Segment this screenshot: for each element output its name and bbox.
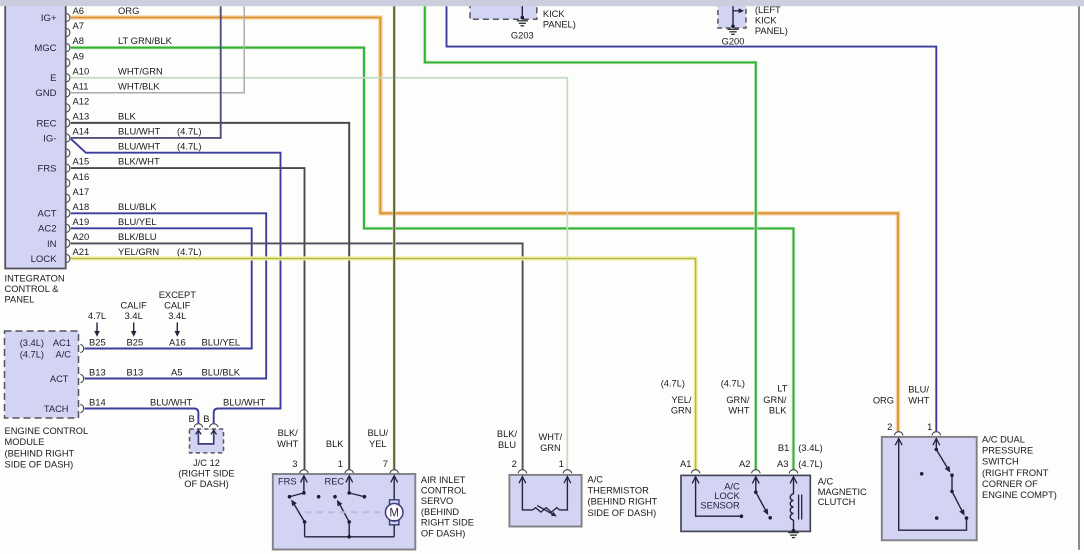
svg-text:WHT/BLK: WHT/BLK bbox=[118, 80, 160, 91]
svg-text:LT: LT bbox=[777, 384, 787, 394]
svg-text:CALIF: CALIF bbox=[164, 300, 191, 310]
svg-text:G203: G203 bbox=[511, 30, 534, 40]
A/C dual pressure switch box bbox=[882, 437, 977, 540]
svg-text:J/C 12: J/C 12 bbox=[193, 458, 220, 468]
lock sensor internal A2 switch blade bbox=[752, 477, 772, 520]
svg-text:BLU/WHT: BLU/WHT bbox=[118, 141, 160, 152]
svg-text:A9: A9 bbox=[73, 50, 84, 61]
svg-text:IG+: IG+ bbox=[41, 13, 57, 24]
svg-text:1: 1 bbox=[338, 458, 343, 469]
svg-text:BLU/WHT: BLU/WHT bbox=[118, 126, 160, 137]
ECM pin arcs B25/B13/B14 bbox=[80, 344, 83, 412]
label AIR INLET CONTROL SERVO (BEHIND RIGHT SIDE OF DASH) bbox=[421, 475, 474, 539]
svg-text:B: B bbox=[189, 413, 195, 424]
svg-text:LOCK: LOCK bbox=[31, 254, 58, 265]
svg-text:BLK: BLK bbox=[769, 405, 787, 415]
svg-text:REC: REC bbox=[36, 118, 56, 129]
magnetic clutch coil on A3 bbox=[790, 477, 802, 533]
svg-text:OF DASH): OF DASH) bbox=[184, 479, 228, 489]
servo internal: motor M bbox=[385, 476, 403, 537]
wire labels above lock sensor pins bbox=[661, 379, 788, 416]
svg-text:IG-: IG- bbox=[43, 133, 56, 144]
ground symbol G203 bbox=[517, 21, 528, 26]
svg-text:BLU/BLK: BLU/BLK bbox=[118, 201, 157, 212]
svg-text:1: 1 bbox=[927, 421, 932, 432]
svg-text:(4.7L): (4.7L) bbox=[721, 379, 745, 389]
svg-text:B13: B13 bbox=[89, 367, 106, 378]
svg-text:AC1: AC1 bbox=[53, 338, 71, 348]
svg-text:LT GRN/BLK: LT GRN/BLK bbox=[118, 35, 173, 46]
wire labels above thermistor pins bbox=[497, 429, 563, 453]
svg-text:A13: A13 bbox=[73, 111, 90, 122]
wire LT GRN/BLK: A8 to A/C lock sensor pin A3 bbox=[71, 48, 794, 470]
svg-text:WHT/: WHT/ bbox=[539, 432, 563, 442]
svg-text:A20: A20 bbox=[73, 231, 90, 242]
svg-text:A16: A16 bbox=[73, 171, 90, 182]
servo internal: FRS switch bbox=[288, 476, 308, 537]
svg-text:BLK/WHT: BLK/WHT bbox=[118, 156, 160, 167]
wire BLU/YEL: A19 to ECM pin B25/A16 row bbox=[71, 228, 252, 348]
thermistor pin arcs bbox=[518, 470, 572, 473]
svg-text:(LEFT: (LEFT bbox=[755, 5, 781, 15]
svg-text:PRESSURE: PRESSURE bbox=[982, 446, 1033, 456]
label INTEGRATON CONTROL & PANEL bbox=[5, 274, 65, 305]
svg-text:KICK: KICK bbox=[543, 9, 565, 19]
svg-text:SIDE OF DASH): SIDE OF DASH) bbox=[5, 459, 74, 469]
svg-text:3.4L: 3.4L bbox=[168, 311, 186, 321]
wire WHT/GRN: A10 to A/C thermistor pin 1 bbox=[71, 78, 568, 469]
svg-text:(4.7L): (4.7L) bbox=[798, 458, 823, 469]
svg-text:B13: B13 bbox=[127, 367, 144, 378]
svg-text:WHT: WHT bbox=[728, 405, 749, 415]
svg-text:A12: A12 bbox=[73, 95, 90, 106]
svg-text:MGC: MGC bbox=[34, 43, 56, 54]
svg-text:A15: A15 bbox=[73, 156, 90, 167]
svg-text:BLK/: BLK/ bbox=[497, 429, 518, 439]
pressure switch pin numbers 2 1 bbox=[887, 421, 932, 432]
wire BLK/WHT: A15 to air inlet control servo pin 3 bbox=[71, 168, 305, 469]
pressure switch internal pin 2 path bbox=[895, 439, 968, 531]
label (LEFT KICK PANEL) for G200 bbox=[755, 5, 788, 36]
wire YEL/GRN: A21 to A/C lock sensor pin A1 bbox=[71, 258, 696, 469]
svg-text:CLUTCH: CLUTCH bbox=[818, 497, 856, 507]
svg-text:CONTROL &: CONTROL & bbox=[5, 284, 60, 294]
svg-text:A/C: A/C bbox=[56, 349, 72, 359]
servo internal: bottom bus bbox=[305, 535, 395, 539]
pin number labels A6-A21 bbox=[73, 5, 90, 257]
label G200 bbox=[722, 36, 745, 46]
wire value labels for connector rows bbox=[118, 5, 202, 257]
svg-text:A/C: A/C bbox=[818, 477, 834, 487]
svg-text:ACT: ACT bbox=[50, 374, 69, 384]
svg-text:MODULE: MODULE bbox=[5, 437, 45, 447]
svg-text:7: 7 bbox=[383, 458, 388, 469]
svg-text:A/C DUAL: A/C DUAL bbox=[982, 435, 1025, 445]
wire BLK/BLU: A20 to A/C thermistor pin 2 bbox=[71, 243, 523, 469]
svg-text:IN: IN bbox=[47, 239, 57, 250]
svg-text:B: B bbox=[203, 413, 209, 424]
svg-text:REC: REC bbox=[325, 477, 345, 487]
svg-text:B25: B25 bbox=[89, 337, 106, 348]
pressure switch pin arcs bbox=[894, 432, 940, 435]
svg-text:SIDE OF DASH): SIDE OF DASH) bbox=[588, 508, 657, 518]
svg-text:CORNER OF: CORNER OF bbox=[982, 479, 1038, 489]
svg-text:PANEL: PANEL bbox=[5, 295, 35, 305]
wire WHT/BLK: A11 up to top edge bbox=[71, 6, 244, 92]
svg-text:OF DASH): OF DASH) bbox=[421, 528, 465, 538]
svg-text:4.7L: 4.7L bbox=[88, 311, 106, 321]
engine control module box bbox=[5, 331, 79, 418]
svg-text:A7: A7 bbox=[73, 20, 84, 31]
svg-text:A18: A18 bbox=[73, 201, 90, 212]
thermistor pin numbers 2 1 bbox=[512, 458, 564, 469]
svg-text:(4.7L): (4.7L) bbox=[20, 349, 44, 359]
svg-text:ENGINE CONTROL: ENGINE CONTROL bbox=[5, 426, 89, 436]
svg-text:BLU/YEL: BLU/YEL bbox=[202, 337, 241, 348]
svg-text:A16: A16 bbox=[169, 337, 186, 348]
A/C thermistor box bbox=[509, 475, 581, 527]
label J/C 12 (RIGHT SIDE OF DASH) bbox=[178, 458, 234, 489]
svg-text:BLK: BLK bbox=[118, 111, 136, 122]
wire into G200 with junction arrow bbox=[731, 0, 744, 28]
svg-text:(RIGHT SIDE: (RIGHT SIDE bbox=[178, 469, 234, 479]
svg-text:G200: G200 bbox=[722, 36, 745, 46]
svg-text:YEL/: YEL/ bbox=[671, 395, 692, 405]
label ENGINE CONTROL MODULE (BEHIND RIGHT SIDE OF DASH) bbox=[5, 426, 89, 469]
svg-text:THERMISTOR: THERMISTOR bbox=[588, 486, 650, 496]
servo internal: REC switch bbox=[317, 476, 366, 537]
svg-text:FRS: FRS bbox=[38, 164, 57, 175]
svg-text:BLK: BLK bbox=[326, 439, 344, 449]
svg-text:ACT: ACT bbox=[38, 209, 57, 220]
svg-text:YEL/GRN: YEL/GRN bbox=[118, 246, 159, 257]
svg-text:WHT: WHT bbox=[908, 395, 929, 405]
svg-text:A14: A14 bbox=[73, 126, 90, 137]
label G203 bbox=[511, 30, 534, 40]
svg-text:BLU/WHT: BLU/WHT bbox=[223, 397, 265, 408]
svg-text:FRS: FRS bbox=[278, 477, 297, 487]
svg-text:ORG: ORG bbox=[118, 5, 139, 16]
wire labels above servo pins bbox=[277, 428, 388, 449]
wire BLU/YEL: top edge down to servo pin 7 bbox=[393, 6, 396, 469]
lock sensor pin arcs bbox=[691, 470, 798, 473]
svg-text:(3.4L): (3.4L) bbox=[20, 338, 44, 348]
page frame right edge bbox=[1078, 6, 1080, 550]
air inlet control servo box bbox=[273, 474, 416, 550]
svg-text:B25: B25 bbox=[127, 337, 144, 348]
ECM row pin labels bbox=[89, 337, 265, 408]
wire BLU/WHT: IG- diagonal to J/C 12 right pin via ECM row bbox=[71, 139, 281, 423]
svg-text:A6: A6 bbox=[73, 5, 84, 16]
svg-text:MAGNETIC: MAGNETIC bbox=[818, 487, 867, 497]
column arrows bbox=[94, 323, 180, 337]
svg-text:BLU/: BLU/ bbox=[367, 428, 388, 438]
servo pin arcs bbox=[300, 470, 399, 473]
svg-text:M: M bbox=[389, 507, 399, 519]
pressure switch internal pin 1 dual blades bbox=[933, 439, 965, 516]
label A/C THERMISTOR (BEHIND RIGHT SIDE OF DASH) bbox=[588, 475, 658, 518]
svg-text:A19: A19 bbox=[73, 216, 90, 227]
svg-text:A21: A21 bbox=[73, 246, 90, 257]
svg-text:BLK/BLU: BLK/BLU bbox=[118, 231, 157, 242]
thermistor internal symbol bbox=[519, 477, 571, 517]
label A/C MAGNETIC CLUTCH bbox=[818, 477, 867, 507]
svg-text:(BEHIND RIGHT: (BEHIND RIGHT bbox=[588, 497, 658, 507]
svg-text:GRN/: GRN/ bbox=[726, 395, 750, 405]
svg-text:(BEHIND RIGHT: (BEHIND RIGHT bbox=[5, 448, 75, 458]
svg-text:BLU: BLU bbox=[498, 440, 516, 450]
svg-text:(4.7L): (4.7L) bbox=[177, 126, 202, 137]
svg-text:E: E bbox=[50, 73, 56, 84]
lock sensor pin labels A1 A2 A3 B1 bbox=[680, 442, 823, 469]
svg-text:A17: A17 bbox=[73, 186, 90, 197]
wire ORG: A6 to A/C dual pressure switch pin 2 bbox=[71, 18, 898, 432]
svg-text:ORG: ORG bbox=[873, 395, 894, 405]
svg-text:A3: A3 bbox=[777, 458, 788, 469]
svg-text:INTEGRATON: INTEGRATON bbox=[5, 274, 65, 284]
svg-text:A2: A2 bbox=[739, 458, 750, 469]
svg-text:(3.4L): (3.4L) bbox=[798, 442, 823, 453]
svg-text:PANEL): PANEL) bbox=[755, 26, 788, 36]
svg-text:(4.7L): (4.7L) bbox=[177, 141, 202, 152]
svg-text:A1: A1 bbox=[680, 458, 691, 469]
svg-text:BLU/WHT: BLU/WHT bbox=[150, 397, 192, 408]
top toolbar strip bbox=[0, 0, 1084, 6]
svg-text:SENSOR: SENSOR bbox=[700, 500, 740, 510]
pressure switch reference dots bbox=[920, 472, 939, 520]
label A/C DUAL PRESSURE SWITCH (RIGHT FRONT CORNER OF ENGINE COMPT) bbox=[982, 435, 1057, 501]
svg-text:RIGHT SIDE: RIGHT SIDE bbox=[421, 518, 474, 528]
ground G200 connector box bbox=[718, 0, 746, 28]
calibration column headers 4.7L / CALIF 3.4L / EXCEPT CALIF 3.4L bbox=[88, 290, 196, 321]
svg-text:B14: B14 bbox=[89, 397, 106, 408]
svg-text:B1: B1 bbox=[778, 442, 789, 453]
svg-text:(RIGHT FRONT: (RIGHT FRONT bbox=[982, 468, 1049, 478]
svg-text:EXCEPT: EXCEPT bbox=[159, 290, 197, 300]
svg-text:(4.7L): (4.7L) bbox=[177, 246, 202, 257]
svg-text:SERVO: SERVO bbox=[421, 496, 453, 506]
svg-text:ENGINE COMPT): ENGINE COMPT) bbox=[982, 490, 1057, 500]
wire BLU/WHT: A14 up to top edge bbox=[71, 6, 221, 138]
wire into G203 bbox=[521, 0, 525, 20]
lock sensor internal A1 contact bbox=[692, 477, 743, 518]
wire BLK: A13 to air inlet control servo pin 1 bbox=[71, 123, 349, 469]
svg-text:2: 2 bbox=[512, 458, 517, 469]
wire labels ORG and BLU/WHT above pressure switch bbox=[873, 384, 930, 405]
svg-text:AIR INLET: AIR INLET bbox=[421, 475, 466, 485]
svg-text:AC2: AC2 bbox=[38, 224, 56, 235]
svg-text:A5: A5 bbox=[171, 367, 182, 378]
svg-text:YEL: YEL bbox=[369, 439, 387, 449]
svg-text:(BEHIND: (BEHIND bbox=[421, 507, 460, 517]
svg-text:3.4L: 3.4L bbox=[125, 311, 143, 321]
svg-text:(4.7L): (4.7L) bbox=[661, 379, 685, 389]
connector pin arcs A6-A21 bbox=[67, 13, 70, 262]
svg-text:CONTROL: CONTROL bbox=[421, 486, 466, 496]
svg-text:TACH: TACH bbox=[44, 404, 69, 414]
ground symbol G200 bbox=[727, 29, 738, 34]
svg-text:A10: A10 bbox=[73, 65, 90, 76]
svg-text:GRN: GRN bbox=[671, 405, 692, 415]
A/C lock sensor box bbox=[681, 475, 810, 531]
svg-text:BLU/BLK: BLU/BLK bbox=[202, 367, 241, 378]
wire BLU/WHT: top edge to A/C dual pressure switch pin 1 bbox=[447, 6, 937, 431]
wire BLU/BLK: A18 to ECM pin B13/A5 row bbox=[71, 213, 266, 378]
junction connector J/C 12 bbox=[190, 429, 224, 453]
svg-text:GND: GND bbox=[35, 88, 56, 99]
svg-text:3: 3 bbox=[292, 458, 297, 469]
svg-text:GRN/: GRN/ bbox=[763, 395, 787, 405]
svg-text:SWITCH: SWITCH bbox=[982, 457, 1019, 467]
svg-text:1: 1 bbox=[559, 458, 564, 469]
svg-text:A11: A11 bbox=[73, 80, 89, 91]
servo pin numbers 3 1 7 bbox=[292, 458, 388, 469]
svg-text:KICK: KICK bbox=[755, 16, 777, 26]
svg-text:2: 2 bbox=[887, 421, 892, 432]
svg-text:WHT/GRN: WHT/GRN bbox=[118, 65, 163, 76]
J/C 12 pin arcs and B labels bbox=[189, 413, 218, 427]
label KICK PANEL) for G203 bbox=[543, 9, 576, 30]
svg-text:BLU/: BLU/ bbox=[908, 384, 929, 394]
svg-text:GRN: GRN bbox=[540, 443, 561, 453]
integration control panel connector box bbox=[5, 1, 65, 269]
svg-text:BLK/: BLK/ bbox=[278, 428, 299, 438]
ground under magnetic clutch bbox=[788, 533, 799, 538]
wire GRN/WHT: top edge to A/C lock sensor pin A2 bbox=[425, 6, 756, 469]
svg-text:A/C: A/C bbox=[588, 475, 604, 485]
wire B14 BLU/WHT: ECM TACH to J/C 12 left pin bbox=[85, 409, 199, 424]
servo internal: linkage dashed line bbox=[305, 511, 385, 513]
ground G203 connector box bbox=[470, 0, 537, 19]
svg-text:WHT: WHT bbox=[277, 439, 298, 449]
svg-text:A8: A8 bbox=[73, 35, 84, 46]
svg-text:CALIF: CALIF bbox=[121, 300, 148, 310]
svg-text:BLU/YEL: BLU/YEL bbox=[118, 216, 157, 227]
svg-text:PANEL): PANEL) bbox=[543, 20, 576, 30]
